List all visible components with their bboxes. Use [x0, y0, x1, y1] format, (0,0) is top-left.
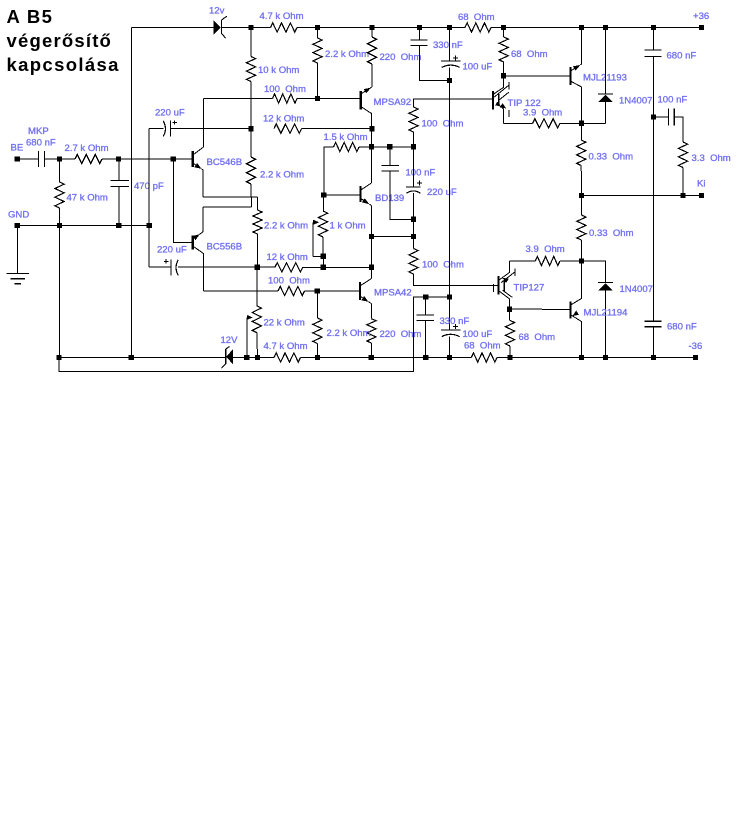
svg-text:0.33 Ohm: 0.33 Ohm [589, 152, 634, 163]
trimmer R 1k [318, 211, 327, 237]
label 0.33 Ohm lower [589, 228, 634, 239]
label 220 Ohm lower [380, 329, 422, 340]
svg-text:100 nF: 100 nF [406, 168, 436, 179]
wire x323.3 y256-267 [322, 256, 324, 267]
resistor R 12k lower [275, 263, 303, 272]
node x449.5 y80.5 [447, 78, 452, 83]
node x653.5 y357.5 [651, 355, 656, 360]
svg-text:12v: 12v [209, 6, 225, 17]
wire BD139 base [324, 194, 360, 196]
node x257.5 y357.5 [255, 355, 260, 360]
trimmer wiper 22k [247, 315, 253, 358]
svg-text:1N4007: 1N4007 [619, 96, 652, 107]
wire 2.2k br top lead [316, 291, 318, 318]
label 220 uF mid [427, 187, 457, 198]
wire TIP122 base line [414, 99, 493, 107]
terminal -36 [693, 355, 698, 360]
node x581.5 y357.5 [579, 355, 584, 360]
resistor R 2.2k bottom-right [313, 318, 322, 344]
node x371.5 y236.5 [369, 234, 374, 239]
resistor R 220 top [367, 37, 376, 64]
svg-text:MJL21194: MJL21194 [584, 308, 629, 319]
svg-text:MPSA92: MPSA92 [374, 97, 412, 108]
node x323.3 y267.4 [321, 265, 326, 270]
label 100 uF lower [463, 329, 493, 340]
wire x449.5 rail to cap [449, 28, 451, 62]
wire 3.9l to node [560, 260, 582, 262]
wire top +36 rail [131, 27, 701, 29]
wire rail2 [59, 297, 450, 372]
node x413.5 y219.3 [411, 217, 416, 222]
node x371.4 y357.5 [369, 355, 374, 360]
node on rail x372 [369, 25, 374, 30]
svg-text:BE: BE [11, 143, 24, 154]
capacitor C 100nF mid [382, 166, 399, 172]
wire x372 from rail [371, 28, 373, 38]
wire 100nF out leads [654, 117, 684, 142]
svg-text:kapcsolása: kapcsolása [7, 54, 120, 75]
wire 330l top lead [425, 297, 427, 315]
node x317.5 y98.5 [315, 96, 320, 101]
label +36 [693, 11, 709, 22]
label BC546B [207, 157, 243, 168]
label GND [8, 210, 29, 221]
svg-text:68 Ohm: 68 Ohm [511, 49, 548, 60]
resistor R 3.9 lower [535, 256, 560, 265]
wire y146.8 [372, 146, 414, 148]
terminal BE [15, 156, 20, 161]
wire x251 mid [250, 82, 252, 129]
wire 100uFl bottom lead [449, 337, 451, 358]
label 4.7 k Ohm top [260, 11, 304, 22]
diode D 1N4007 lower [598, 283, 613, 358]
node x413.5 y236.5 [411, 234, 416, 239]
wire BD139 collector up [371, 129, 373, 183]
wire y197 [203, 196, 258, 198]
wire 100 Ohm line y98.5 [204, 98, 360, 100]
label 470 pF [134, 181, 164, 192]
capacitor C MKP 680nF [39, 151, 45, 167]
resistor R 2.2k (BC546 emitter) [246, 157, 255, 184]
svg-text:1N4007: 1N4007 [620, 284, 653, 295]
resistor R 1.5k [334, 142, 360, 151]
resistor R 68 upper-right [499, 37, 508, 62]
resistor R 4.7k top [271, 23, 298, 32]
resistor R 2.2k top [313, 38, 322, 63]
label BC556B [207, 242, 243, 253]
wire 0.33l bottom lead [580, 240, 582, 261]
node on rail x605.5 [603, 25, 608, 30]
svg-text:330 nF: 330 nF [440, 316, 470, 327]
node x389.8 y146.8 [387, 144, 392, 149]
svg-text:BC546B: BC546B [207, 157, 243, 168]
svg-text:330 nF: 330 nF [433, 40, 463, 51]
wire gnd rail y225.5 [17, 225, 149, 227]
node rail2 x59 [56, 355, 61, 360]
wire 220 lower lead [370, 343, 372, 358]
wire bottom -36 rail [59, 357, 696, 359]
resistor R 10k [246, 57, 255, 82]
resistor R 2.2k (BC556 emitter) [253, 210, 262, 234]
svg-text:0.33 Ohm: 0.33 Ohm [589, 228, 634, 239]
node y159 x118.5 [116, 156, 121, 161]
resistor R 100 upper-mid [409, 107, 418, 132]
node x371.5 y267.4 [369, 265, 374, 270]
wire 0.33u bottom lead [580, 166, 582, 196]
wire x149 [149, 129, 171, 267]
resistor R 68 lower-right [505, 320, 514, 346]
label 220 uF lower-left [157, 245, 187, 256]
wire node to diode2 [582, 261, 606, 283]
node x372 y128.6 [369, 126, 374, 131]
resistor R 100 (y98.5) [273, 94, 298, 103]
trimmer wiper 1k [313, 220, 321, 257]
label 220 uF upper [155, 108, 185, 119]
svg-text:100 uF: 100 uF [463, 62, 493, 73]
svg-text:+36: +36 [693, 11, 709, 22]
wire 12k lower line [178, 266, 372, 268]
svg-text:2.2 k Ohm: 2.2 k Ohm [264, 221, 308, 232]
label 680 nF input [26, 138, 56, 149]
label 220 Ohm top [380, 52, 422, 63]
svg-text:10 k Ohm: 10 k Ohm [258, 65, 299, 76]
resistor R 68 bottom [471, 353, 497, 362]
label 1 k Ohm [330, 221, 366, 232]
label 2.2 k Ohm mid2 [264, 221, 308, 232]
label 10 k Ohm [258, 65, 299, 76]
resistor R 47k [55, 182, 64, 208]
node x323.3 y256.4 [321, 254, 326, 259]
svg-text:220 uF: 220 uF [427, 187, 457, 198]
wire 0.33l top lead [581, 196, 583, 216]
resistor R 100 (y291) [278, 286, 305, 295]
svg-text:680 nF: 680 nF [667, 322, 697, 333]
label 100 Ohm upper [264, 84, 306, 95]
wire BC546B collector up [203, 99, 205, 148]
label 22 k Ohm [264, 318, 305, 329]
svg-text:100 uF: 100 uF [463, 329, 493, 340]
wire x653.5 rail-cap [653, 28, 655, 51]
svg-text:végerősítő: végerősítő [7, 30, 113, 51]
svg-text:22 k Ohm: 22 k Ohm [264, 318, 305, 329]
transistor Q MJL21193 [571, 28, 582, 124]
node x449.5 y357.5 [447, 355, 452, 360]
wire 680l bottom lead [653, 327, 655, 358]
svg-text:220 Ohm: 220 Ohm [380, 52, 422, 63]
wire 68lr bottom lead [509, 346, 511, 358]
node x581.5 y261 [579, 258, 584, 263]
node x605.5 y357.5 [603, 355, 608, 360]
svg-text:-36: -36 [689, 341, 703, 352]
svg-text:MPSA42: MPSA42 [374, 288, 412, 299]
node on rail x419.5 [417, 25, 422, 30]
svg-text:Ki: Ki [697, 179, 706, 190]
wire x119 down [118, 159, 120, 226]
diode D 1N4007 upper [598, 94, 613, 123]
svg-text:2.2 k Ohm: 2.2 k Ohm [325, 49, 369, 60]
capacitor C 470pF [111, 181, 129, 187]
svg-text:100 nF: 100 nF [658, 95, 688, 106]
svg-text:100 Ohm: 100 Ohm [268, 276, 310, 287]
label 680 nF upper [667, 51, 697, 62]
svg-text:4.7 k Ohm: 4.7 k Ohm [260, 11, 304, 22]
wire 12k line y128.6 [149, 128, 372, 130]
wire x413.5 y146-187 [413, 147, 415, 187]
node x509.5 y309.2 [507, 307, 512, 312]
node on rail x653.5 [651, 25, 656, 30]
svg-text:12 k Ohm: 12 k Ohm [263, 114, 304, 125]
svg-text:3.9 Ohm: 3.9 Ohm [526, 244, 565, 255]
svg-text:680 nF: 680 nF [26, 138, 56, 149]
capacitor C 220uF lower [164, 259, 178, 276]
label TIP 122 [508, 98, 541, 109]
ground symbol [7, 226, 29, 284]
label 68 Ohm top [458, 12, 495, 23]
wire x323.8 y195-211 [322, 195, 325, 211]
node x510 y357.5 [507, 355, 512, 360]
label 2.2 k Ohm bottom-right [327, 328, 371, 339]
transistor Q TIP122 [493, 76, 509, 124]
zener diode D2 12V lower [221, 347, 232, 368]
svg-text:12V: 12V [221, 335, 239, 346]
svg-text:47 k Ohm: 47 k Ohm [67, 193, 108, 204]
node y225.5 x149 [147, 223, 152, 228]
wire 3.9 to node [560, 122, 606, 124]
wire x413.5 y236-248 [413, 237, 415, 249]
terminal +36 [699, 25, 704, 30]
node y225.5 x119 [116, 223, 121, 228]
node x683 y195.5 [680, 193, 685, 198]
wire TIP127 base line [414, 274, 498, 286]
label 0.33 Ohm upper [589, 152, 634, 163]
node x323.8 y195 [321, 192, 326, 197]
wire 0.33u top lead [581, 123, 583, 140]
wire 3.3 bottom lead [682, 168, 684, 196]
label 12v [209, 6, 225, 17]
wire stub x251.3 y197-207 [250, 197, 252, 207]
wire x251 below node [250, 129, 252, 157]
label Ki [697, 179, 706, 190]
label 12V lower [221, 335, 239, 346]
svg-text:3.9 Ohm: 3.9 Ohm [523, 108, 562, 119]
resistor R 2.7k [75, 154, 102, 163]
wire vertical x131 [130, 28, 132, 358]
label 12 k Ohm upper [263, 114, 304, 125]
node x503.5 y75.8 [501, 73, 506, 78]
wire TIP122 emitter to 3.9 [503, 122, 532, 124]
wire BD139 emitter down / MPSA42 collector [370, 206, 372, 279]
svg-text:100 Ohm: 100 Ohm [422, 260, 464, 271]
capacitor C 220uF upper [163, 120, 177, 136]
node x425.7 y357.5 [423, 355, 428, 360]
node on rail x449.5 [447, 25, 452, 30]
capacitor C 330nF upper [411, 40, 428, 46]
label 12 k Ohm lower [267, 252, 308, 263]
label 47 k Ohm [67, 193, 108, 204]
transistor Q MPSA42 [360, 279, 372, 304]
resistor R 3.3 [678, 142, 687, 168]
node x449.5 y297 [447, 294, 452, 299]
wire 2.2k br bottom lead [316, 344, 318, 358]
wire x317.5 lower [317, 63, 319, 99]
label MPSA42 [374, 288, 412, 299]
svg-text:100 Ohm: 100 Ohm [422, 119, 464, 130]
label TIP127 [514, 283, 545, 294]
label 68 Ohm upper-right [511, 49, 548, 60]
node x653.5 y117 [651, 114, 656, 119]
node on rail x317.5 [315, 25, 320, 30]
resistor R 68 Ohm top [465, 23, 491, 32]
label 1.5 k Ohm [324, 132, 368, 143]
node on rail x581.5 [579, 25, 584, 30]
capacitor C 680nF lower [645, 321, 662, 326]
wire y236.5 [372, 236, 414, 238]
node on rail x503.5 [501, 25, 506, 30]
transistor Q BC556B [193, 207, 204, 291]
node y159 x59.5 [57, 156, 62, 161]
label 1N4007 lower [620, 284, 653, 295]
label 2.7 k Ohm [65, 143, 109, 154]
wire 100nF leads [390, 147, 414, 220]
node y159 x173.3 [171, 156, 176, 161]
node x581.5 y195.5 output [579, 193, 584, 198]
wire 68 top lead [503, 28, 505, 38]
label 330 nF lower [440, 316, 470, 327]
svg-text:MJL21193: MJL21193 [583, 73, 627, 84]
wire x257.5 y197-210 [257, 197, 259, 210]
capacitor C 100uF upper [441, 55, 461, 67]
svg-text:MKP: MKP [28, 126, 49, 137]
node x131 y357.5 [129, 355, 134, 360]
resistor R 12k upper [274, 124, 302, 133]
label 100 nF out [658, 95, 688, 106]
label 3.9 Ohm lower [526, 244, 565, 255]
wire MJL21193 base [504, 75, 570, 77]
label MJL21194 [584, 308, 629, 319]
node x317.3 y291 [315, 288, 320, 293]
label 2.2 k Ohm top [325, 49, 369, 60]
svg-text:2.7 k Ohm: 2.7 k Ohm [65, 143, 109, 154]
resistor R 0.33 upper [577, 140, 586, 166]
resistor R 3.9 upper [533, 119, 560, 128]
transistor Q BC546B [193, 147, 204, 197]
label MJL21193 [583, 73, 627, 84]
svg-text:A B5: A B5 [7, 6, 54, 27]
wire x59.5 down [59, 159, 61, 358]
svg-text:68 Ohm: 68 Ohm [519, 332, 556, 343]
svg-text:100 Ohm: 100 Ohm [264, 84, 306, 95]
label BE [11, 143, 24, 154]
label 330 nF upper [433, 40, 463, 51]
node x371.5 y146.8 [369, 144, 374, 149]
label 1N4007 upper [619, 96, 652, 107]
svg-text:220 Ohm: 220 Ohm [380, 329, 422, 340]
wire 1k bottom [322, 237, 324, 256]
svg-text:220 uF: 220 uF [157, 245, 187, 256]
svg-text:220 uF: 220 uF [155, 108, 185, 119]
wire diode1 top lead [605, 28, 607, 95]
capacitor C 100uF lower [441, 324, 461, 337]
label 4.7 k Ohm bottom [264, 341, 308, 352]
wire long vertical x449.5 [449, 67, 451, 330]
terminal GND [15, 223, 20, 228]
resistor R 0.33 lower [577, 215, 586, 240]
capacitor C 220uF mid [406, 180, 422, 193]
wire x413.5 y132-146.8 [413, 132, 415, 147]
label 100 Ohm mid2 [422, 260, 464, 271]
label MPSA92 [374, 97, 412, 108]
wire 330nF bottom L [420, 45, 450, 80]
wire y207 [203, 206, 251, 208]
wire MPSA42 emitter [370, 304, 372, 319]
wire x413.5 y193-236 [413, 193, 415, 236]
title text [7, 6, 120, 75]
wire input y159 [17, 158, 192, 160]
capacitor C 680nF upper [645, 50, 662, 57]
node x581.5 y123.3 [579, 121, 584, 126]
resistor R 220 lower [367, 319, 376, 343]
wire x251 upper [250, 28, 252, 57]
svg-text:1 k Ohm: 1 k Ohm [330, 221, 366, 232]
label 100 nF mid [406, 168, 436, 179]
label 100 uF upper [463, 62, 493, 73]
wire 330l bottom lead [425, 321, 427, 358]
transistor Q TIP127 [493, 261, 515, 309]
svg-text:2.2 k Ohm: 2.2 k Ohm [327, 328, 371, 339]
wire MJL21194 base [510, 308, 570, 310]
wire 1.5k left [324, 147, 334, 195]
svg-text:4.7 k Ohm: 4.7 k Ohm [264, 341, 308, 352]
svg-text:BC556B: BC556B [207, 242, 243, 253]
terminal Ki [699, 193, 704, 198]
label 3.3 Ohm [692, 153, 731, 164]
svg-text:680 nF: 680 nF [667, 51, 697, 62]
wire 68 bottom lead [503, 62, 505, 76]
wire 3.9 lower line [509, 260, 535, 262]
label 2.2 k Ohm mid [260, 170, 304, 181]
wire MPSA92 collector vert [371, 64, 373, 87]
wire 22k bottom [256, 333, 259, 358]
node on rail x251 [248, 25, 253, 30]
label -36 [689, 341, 703, 352]
svg-text:12 k Ohm: 12 k Ohm [267, 252, 308, 263]
zener diode D1 12v [214, 16, 227, 38]
label 100 Ohm mid [422, 119, 464, 130]
wire 68lr top lead [509, 309, 511, 320]
label BD139 [375, 193, 404, 204]
wire x257.5 y234-267 [256, 234, 258, 267]
wire output rail [582, 195, 702, 197]
node x317.5 y357.5 [315, 355, 320, 360]
transistor Q BD139 [361, 183, 372, 206]
wire 100 line y291 [203, 290, 359, 292]
svg-text:3.3 Ohm: 3.3 Ohm [692, 153, 731, 164]
wire x317.5 upper [317, 28, 319, 39]
svg-text:2.2 k Ohm: 2.2 k Ohm [260, 170, 304, 181]
node x246.9 y357.5 [244, 355, 249, 360]
label 100 Ohm lower [268, 276, 310, 287]
label 3.9 Ohm upper [523, 108, 562, 119]
node x413.5 y146.8 [411, 144, 416, 149]
svg-text:TIP127: TIP127 [514, 283, 545, 294]
node x425.7 y297 [423, 294, 428, 299]
resistor R 100 mid [409, 249, 418, 275]
capacitor C 330nF lower [417, 315, 434, 321]
svg-text:68 Ohm: 68 Ohm [464, 341, 501, 352]
wire x251 to emitter line [250, 184, 252, 197]
wire BC556B base [173, 159, 192, 243]
svg-text:GND: GND [8, 210, 29, 221]
